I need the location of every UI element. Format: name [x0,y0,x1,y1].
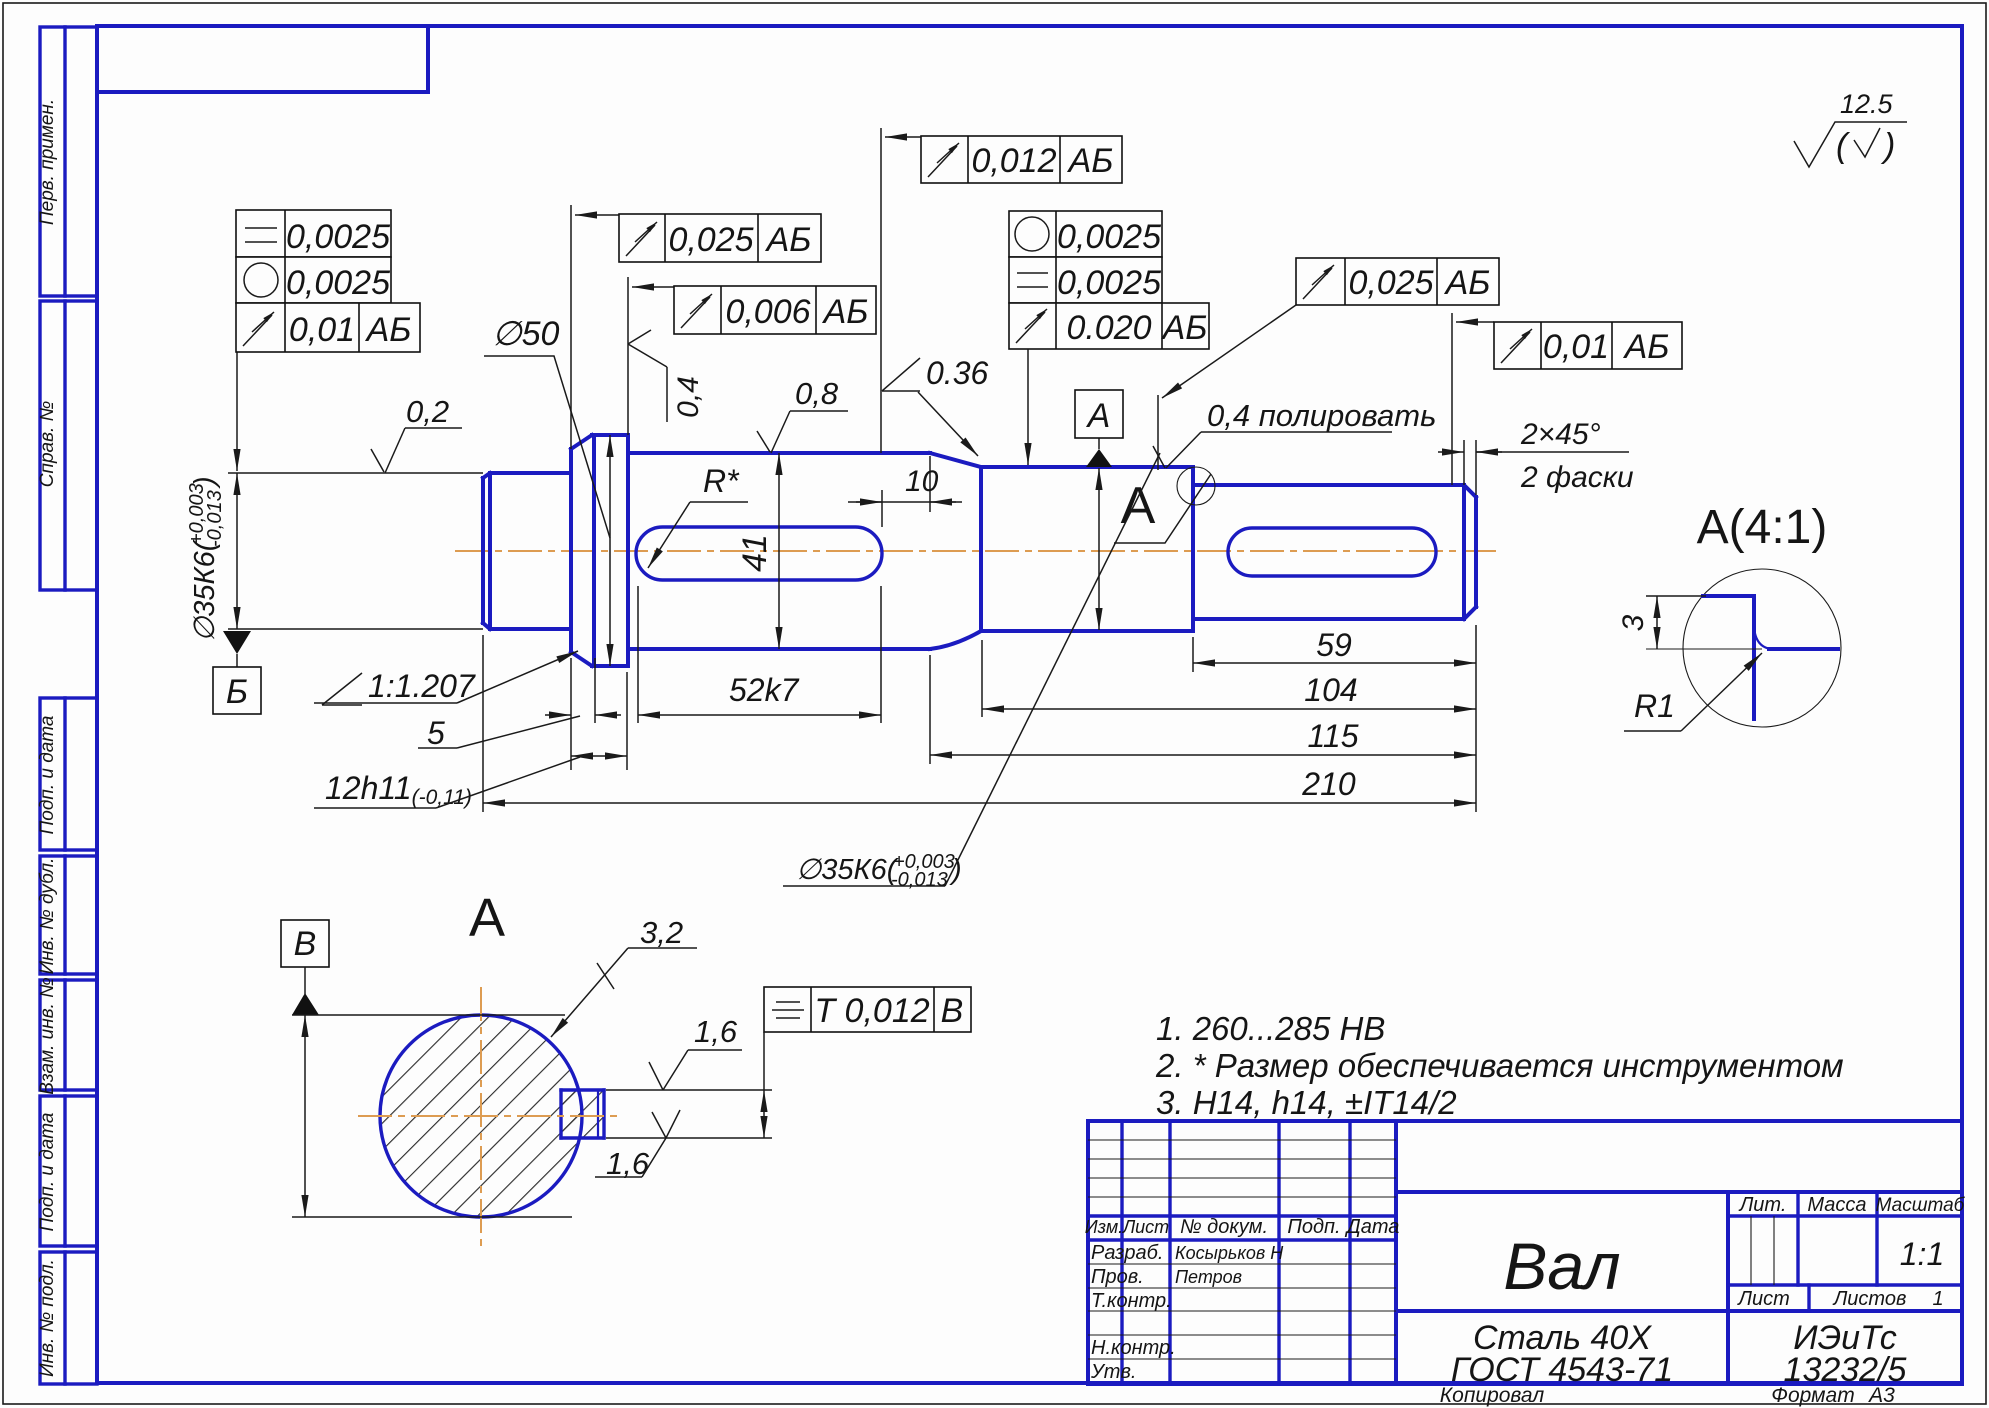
svg-text:А3: А3 [1867,1384,1895,1407]
svg-text:Масса: Масса [1807,1194,1866,1216]
tolerance stack left: parallelism 0,0025 [236,210,391,257]
detail profile [1703,596,1838,719]
sidebar box: Подп. и дата (upper) [37,698,97,850]
svg-text:0,01: 0,01 [1543,328,1609,366]
svg-text:Масштаб: Масштаб [1876,1195,1966,1216]
collar Ф50 [592,435,628,666]
frame runout 0,025 АБ (right) [1158,258,1499,470]
svg-text:АБ: АБ [1067,142,1114,180]
dim Ф35 polished: dimension line [1098,468,1100,630]
remote label Ф35К6 with leader [796,851,962,891]
svg-text:АБ: АБ [1444,264,1491,302]
svg-text:0,012: 0,012 [971,142,1056,180]
svg-text:Взам. инв. №: Взам. инв. № [37,977,58,1095]
frame runout 0,012 АБ [881,128,1122,453]
sidebar box: Подп. и дата (lower) [37,1096,97,1246]
svg-text:0,8: 0,8 [795,376,839,411]
right stack leader down to polished surface [1027,349,1029,465]
leader shelf of detail callout [1114,474,1211,543]
sidebar box: Перв. примен. [37,27,97,296]
detail dim 3 [1617,596,1762,649]
tolerance stack right: parallelism 0,0025 [1009,257,1162,303]
frame symmetry Т 0,012 В [764,987,971,1090]
svg-text:-0,013: -0,013 [891,869,948,891]
shaft centerline [455,550,1502,552]
section height dimension with datum [292,1014,565,1016]
technical notes [1155,1010,1844,1121]
dim 115 [929,655,931,764]
svg-text:41: 41 [736,534,774,572]
svg-text:2 фаски: 2 фаски [1520,461,1634,494]
svg-text:А(4:1): А(4:1) [1697,501,1828,554]
svg-text:Листов: Листов [1832,1288,1907,1310]
svg-text:0,006: 0,006 [725,293,810,331]
svg-text:А: А [1086,397,1111,435]
svg-text:Разраб.: Разраб. [1091,1242,1163,1264]
svg-text:АБ: АБ [1161,309,1208,347]
svg-text:59: 59 [1316,627,1352,663]
svg-text:0.020: 0.020 [1066,309,1151,347]
roughness 1,6 lower [595,1110,680,1181]
keyway slot 52k7 [636,527,882,580]
polish note 0,4 полировать [1153,398,1436,468]
svg-text:АБ: АБ [365,311,412,349]
slope mark 0.36 [882,355,988,456]
svg-text:0.36: 0.36 [926,355,988,391]
title block thin row lines, signature rows [1088,1263,1396,1265]
svg-text:Лист: Лист [1736,1288,1790,1310]
cone 1:1.207 transition [571,435,592,666]
datum В flag [281,920,329,1015]
svg-text:В: В [294,925,317,963]
sidebar box: Инв. № подл. [37,1252,97,1384]
tolerance stack left: runout 0,01 АБ [236,303,420,352]
frame runout 0,01 АБ (right) [1452,313,1682,485]
svg-text:А: А [469,888,505,948]
svg-text:В: В [941,992,964,1030]
general roughness 12.5 top corner [1794,89,1907,167]
svg-text:Инв. № дубл.: Инв. № дубл. [37,858,58,975]
svg-text:0,0025: 0,0025 [286,218,390,256]
svg-text:АБ: АБ [1623,328,1670,366]
datum A flag on polished journal [1086,449,1112,467]
svg-text:Дата: Дата [1345,1216,1400,1238]
svg-text:0,025: 0,025 [1348,264,1433,302]
roughness 3,2 on section [551,915,697,1037]
svg-text:Б: Б [226,673,248,711]
detail circle [1683,569,1841,727]
svg-text:5: 5 [427,715,445,751]
svg-text:1. 260...285 НВ: 1. 260...285 НВ [1156,1010,1385,1047]
svg-text:115: 115 [1307,718,1358,754]
dim 52k7 [637,586,639,723]
Ф41 keyway section body [628,453,930,649]
tolerance stack left: circularity 0,0025 [236,257,391,303]
dim 10 [881,490,883,527]
svg-text:1:1: 1:1 [1900,1236,1944,1272]
dim 104 [981,640,983,717]
svg-text:Утв.: Утв. [1090,1361,1136,1383]
keyway slot 59 [1228,528,1436,576]
svg-text:Т.контр.: Т.контр. [1091,1290,1172,1312]
svg-text:0,4 полировать: 0,4 полировать [1207,398,1436,433]
dim Ф35К6 left: label rotated [186,476,226,642]
detail A circle mark on corner [1177,467,1215,505]
frame runout 0,006 АБ [628,277,876,435]
dim Ф41: dimension line [778,453,780,649]
title block outer frame [1088,1121,1962,1384]
svg-text:52k7: 52k7 [729,672,800,708]
frame runout 0,025 АБ (left) [571,205,821,449]
roughness 0,2 on left journal [371,394,462,473]
svg-text:210: 210 [1301,766,1356,802]
svg-text:∅35К6(: ∅35К6( [796,854,900,886]
keyway width dimension on section [606,1090,772,1138]
dim 5 [570,658,572,770]
polished journal Ф35К6 (A) [981,467,1193,631]
svg-text:(: ( [1836,127,1851,165]
svg-text:3: 3 [1617,614,1650,631]
top-left document designation box [97,26,428,92]
title block thick horizontals [1088,1214,1396,1217]
svg-text:0,0025: 0,0025 [1057,218,1161,256]
sidebar box: Справ. № [37,301,97,590]
sidebar box: Взам. инв. № [37,977,97,1095]
svg-text:0,4: 0,4 [672,376,705,418]
svg-text:Изм.: Изм. [1085,1217,1123,1237]
svg-text:∅50: ∅50 [492,315,560,353]
tolerance stack right: runout 0.020 АБ [1009,303,1209,349]
section centerlines [358,1115,618,1117]
svg-text:Косырьков Н: Косырьков Н [1175,1243,1284,1263]
dim 210 [482,635,484,812]
svg-text:2×45°: 2×45° [1520,418,1601,451]
tolerance stack right: circularity 0,0025 [1009,211,1162,257]
svg-text:): ) [1880,127,1895,165]
taper to polished journal [930,453,981,649]
svg-text:Формат: Формат [1771,1384,1854,1407]
dim Ф35К6 left: dimension line [236,473,238,629]
svg-text:0,2: 0,2 [406,394,449,429]
roughness 0,8 on Ф41 [757,376,848,453]
svg-text:0,025: 0,025 [668,221,753,259]
svg-text:Справ. №: Справ. № [37,401,58,487]
dim 59 [1192,637,1194,672]
dim 12h11 [626,672,628,770]
svg-text:Лит.: Лит. [1738,1194,1787,1216]
shaft end section with keyway [1193,485,1476,619]
svg-text:1,6: 1,6 [694,1014,738,1049]
svg-text:Подп.: Подп. [1287,1216,1340,1238]
svg-text:2. * Размер обеспечивается ин: 2. * Размер обеспечивается инструментом [1155,1047,1844,1084]
svg-text:1: 1 [1932,1288,1943,1310]
roughness 1,6 upper [649,1014,742,1090]
svg-text:1:1.207: 1:1.207 [368,668,476,704]
svg-text:Пров.: Пров. [1091,1266,1144,1288]
svg-text:104: 104 [1304,672,1357,708]
title block thick verticals [1120,1121,1123,1384]
detail R1 label [1624,653,1762,731]
dim Ф35К6 left: extension lines [228,472,483,474]
dim Ф50: dimension line [609,435,611,666]
shaft left journal Ф35К6(Б) [483,473,570,629]
svg-text:А: А [1121,477,1156,535]
svg-text:-0,013: -0,013 [204,490,226,547]
tolerance stack leader (left) [236,352,238,471]
section hatched circle [380,1015,604,1217]
svg-text:Петров: Петров [1175,1267,1242,1287]
slope 1:1.207 label [322,704,362,706]
Лит sub-cells [1750,1216,1752,1285]
datum Б flag [223,631,251,654]
svg-text:12.5: 12.5 [1840,89,1894,119]
svg-text:3,2: 3,2 [640,915,683,950]
svg-text:R*: R* [703,463,740,499]
svg-text:Подп. и дата: Подп. и дата [37,716,58,835]
sidebar box: Инв. № дубл. [37,856,97,974]
svg-text:3. Н14, h14, ±IT14/2: 3. Н14, h14, ±IT14/2 [1156,1084,1457,1121]
svg-text:АБ: АБ [765,221,812,259]
svg-text:R1: R1 [1634,688,1675,724]
svg-text:10: 10 [905,465,939,498]
svg-text:Лист: Лист [1122,1217,1169,1237]
dim 2x45 chamfer [1463,440,1465,485]
roughness 0,4 on collar extension [628,330,705,422]
svg-text:Подп. и дата: Подп. и дата [37,1113,58,1232]
svg-text:№ докум.: № докум. [1180,1216,1268,1238]
svg-text:Перв. примен.: Перв. примен. [37,99,58,225]
svg-text:0,0025: 0,0025 [1057,264,1161,302]
svg-text:Н.контр.: Н.контр. [1091,1337,1176,1359]
title block thin row lines, top small rows [1088,1139,1396,1141]
svg-text:0,0025: 0,0025 [286,264,390,302]
svg-text:Копировал: Копировал [1440,1384,1545,1407]
svg-text:Инв. № подл.: Инв. № подл. [37,1259,58,1377]
svg-text:0,01: 0,01 [289,311,355,349]
section keyway profile [561,1090,604,1138]
svg-text:Т 0,012: Т 0,012 [814,992,929,1030]
svg-text:Вал: Вал [1503,1229,1620,1303]
svg-text:∅35К6(: ∅35К6( [189,538,221,642]
svg-text:АБ: АБ [822,293,869,331]
